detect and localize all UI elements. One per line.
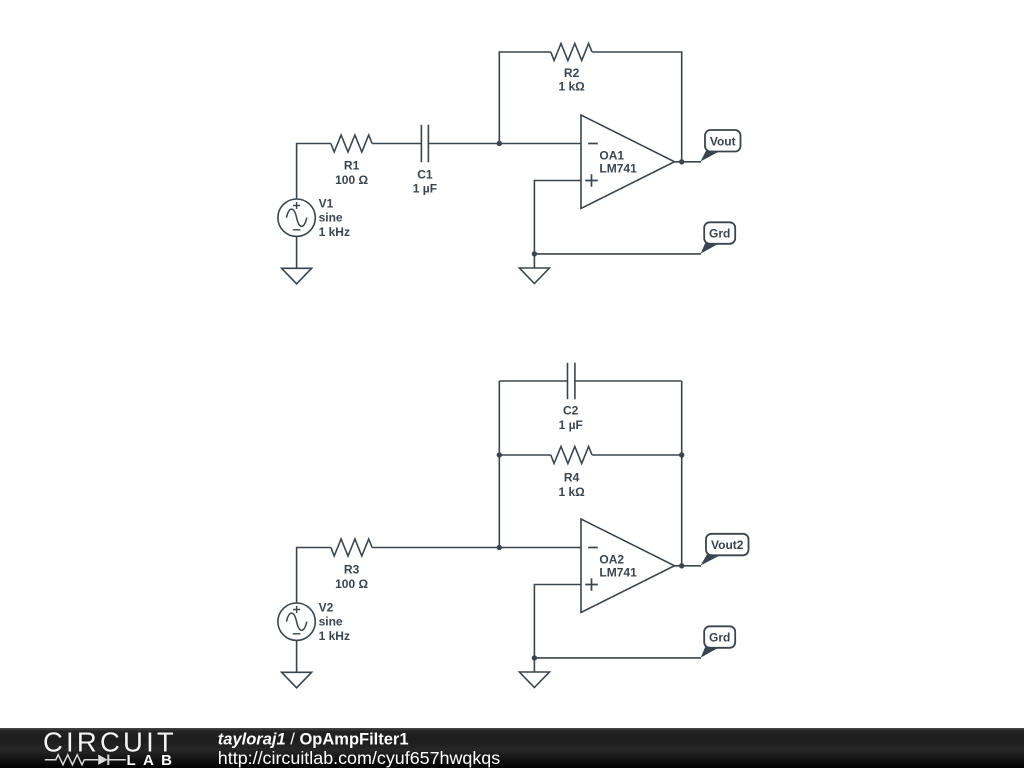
svg-text:sine: sine <box>319 615 343 629</box>
svg-text:Vout: Vout <box>710 134 736 148</box>
svg-text:R1: R1 <box>344 159 360 173</box>
svg-text:Grd: Grd <box>709 631 730 645</box>
svg-text:1 kΩ: 1 kΩ <box>558 485 585 499</box>
svg-text:LM741: LM741 <box>599 161 637 175</box>
svg-text:LM741: LM741 <box>599 565 637 579</box>
svg-text:Grd: Grd <box>709 227 730 241</box>
svg-text:100 Ω: 100 Ω <box>335 173 368 187</box>
svg-text:100 Ω: 100 Ω <box>335 577 368 591</box>
svg-text:1 kHz: 1 kHz <box>319 629 350 643</box>
svg-text:V2: V2 <box>319 600 334 614</box>
svg-text:sine: sine <box>319 211 343 225</box>
svg-text:R2: R2 <box>564 66 580 80</box>
svg-text:1 µF: 1 µF <box>413 181 437 195</box>
svg-text:R4: R4 <box>564 470 580 484</box>
svg-text:V1: V1 <box>319 196 334 210</box>
svg-text:1 kΩ: 1 kΩ <box>558 80 585 94</box>
svg-text:1 kHz: 1 kHz <box>319 225 350 239</box>
svg-text:1 µF: 1 µF <box>559 418 583 432</box>
svg-text:Vout2: Vout2 <box>711 538 744 552</box>
svg-text:R3: R3 <box>344 563 360 577</box>
svg-text:C2: C2 <box>563 403 579 417</box>
svg-text:http://circuitlab.com/cyuf657h: http://circuitlab.com/cyuf657hwqkqs <box>218 748 500 768</box>
svg-text:C1: C1 <box>417 167 433 181</box>
svg-text:LAB: LAB <box>127 752 180 768</box>
svg-text:tayloraj1 / OpAmpFilter1: tayloraj1 / OpAmpFilter1 <box>218 731 409 749</box>
